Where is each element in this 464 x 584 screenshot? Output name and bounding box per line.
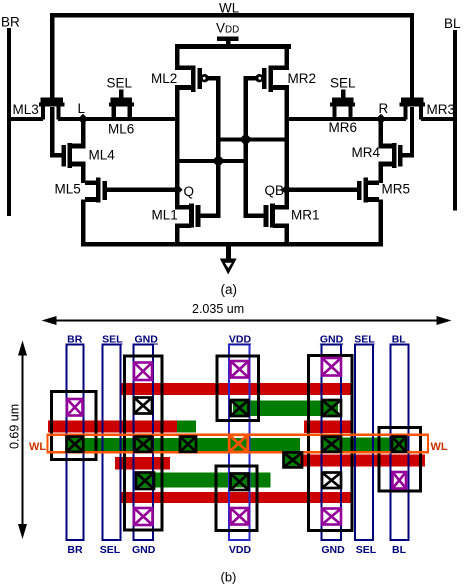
node BL bitline — [453, 30, 457, 211]
metal2 column BR — [67, 345, 84, 541]
metal1 red bar right mid — [304, 421, 351, 434]
wire R down to MR4 drain — [379, 119, 383, 148]
transistor ML4 — [62, 145, 66, 167]
svg-text:ML2: ML2 — [151, 71, 177, 86]
contact X GND left upper — [134, 398, 152, 414]
poly green WL main bar — [66, 438, 300, 452]
svg-text:BR: BR — [67, 544, 83, 556]
wire WL continuation to ML4 gate — [50, 107, 54, 158]
transistor ML2 — [175, 47, 179, 67]
wire ML4 source to ML5 drain — [81, 164, 85, 184]
transistor MR4 — [398, 145, 402, 167]
transistor ML6 — [111, 98, 132, 103]
active green bar lower — [136, 473, 271, 488]
contact X BR WL — [67, 437, 84, 452]
contact X GND left lower — [136, 473, 154, 490]
metal2 column SEL left — [103, 345, 121, 541]
nwell black box GND right — [309, 356, 353, 531]
wire node QB vertical (MR2 drain to MR1 drain) — [284, 87, 288, 207]
svg-text:R: R — [379, 101, 389, 116]
wire ML3 to L to ML6 to inverter — [58, 117, 178, 121]
wire BR to ML3 — [8, 117, 43, 121]
via X VDD bottom purple — [231, 508, 249, 525]
metal1 red bar left lower — [115, 457, 170, 470]
svg-text:GND: GND — [135, 334, 159, 346]
metal2 column SEL right — [355, 345, 373, 541]
svg-text:L: L — [78, 101, 86, 116]
metal1 red bar bottom — [120, 492, 351, 503]
wire ML5 gate to node Q — [107, 188, 179, 192]
svg-text:ML1: ML1 — [152, 208, 178, 223]
svg-text:(a): (a) — [221, 282, 238, 297]
node junction dot on B — [239, 133, 252, 146]
wire node Q vertical (ML2 drain to ML1 drain) — [175, 87, 179, 207]
transistor MR5 — [363, 178, 368, 203]
svg-text:MR5: MR5 — [382, 182, 411, 197]
node L junction dot — [78, 114, 88, 124]
svg-text:SEL: SEL — [356, 544, 377, 556]
svg-text:0.69 um: 0.69 um — [8, 404, 22, 449]
svg-text:SEL: SEL — [100, 544, 121, 556]
wire WL right drop — [410, 13, 414, 98]
node QB junction dot — [281, 185, 291, 195]
via X GND right top purple — [322, 358, 341, 376]
node BR bitline — [7, 28, 11, 216]
svg-text:BL: BL — [444, 16, 461, 31]
wire MR4 source to MR5 drain — [379, 164, 383, 184]
svg-text:MR6: MR6 — [329, 120, 358, 135]
svg-text:ML6: ML6 — [108, 122, 134, 137]
wire lower cross-couple — [175, 159, 248, 163]
active green bar upper — [233, 401, 338, 417]
svg-text:WL: WL — [29, 441, 46, 453]
wire MR2 gate line B — [243, 76, 248, 218]
transistor MR6 — [332, 98, 353, 103]
wire MR5 source to ground rail — [379, 200, 383, 245]
svg-text:ML4: ML4 — [89, 148, 116, 163]
contact X GND right lower — [322, 473, 341, 489]
nwell black box VDD bottom — [216, 466, 257, 531]
svg-text:BL: BL — [392, 334, 407, 346]
dimension arrow vertical 0.69um — [22, 352, 24, 528]
metal2 column BL — [391, 345, 409, 541]
contact X GND left WL — [135, 437, 153, 452]
layout labels bottom row — [67, 544, 406, 556]
via X GND left top purple — [134, 363, 152, 381]
svg-text:SEL: SEL — [107, 76, 133, 91]
via X WL VDD orange — [229, 435, 248, 452]
svg-text:VDD: VDD — [229, 544, 252, 556]
contact X mid offset — [284, 452, 303, 467]
poly green pad mid — [177, 421, 196, 433]
transistor MR2 — [284, 47, 288, 67]
svg-text:BR: BR — [67, 334, 83, 346]
svg-text:SEL: SEL — [330, 76, 356, 91]
wire ground rail — [81, 242, 383, 246]
wire WL top rail — [50, 13, 414, 17]
metal2 column GND left — [134, 345, 154, 541]
metal1 red bar right lower — [284, 452, 300, 467]
svg-text:2.035 um: 2.035 um — [192, 302, 244, 316]
svg-text:ML3: ML3 — [13, 102, 39, 117]
transistor MR3 — [401, 98, 424, 103]
node Q junction dot — [172, 185, 182, 195]
svg-text:WL: WL — [219, 1, 240, 16]
wire inverter to MR6 to R to MR3 — [286, 117, 406, 121]
nwell black box BL — [379, 428, 421, 492]
wire VDD rail — [175, 44, 291, 49]
svg-text:BL: BL — [392, 544, 407, 556]
contact X GND right WL — [322, 437, 341, 452]
svg-text:(b): (b) — [221, 570, 237, 584]
ground symbol — [226, 246, 231, 260]
wire ML5 source to ground rail — [81, 200, 85, 245]
metal1 red bar top — [120, 383, 351, 395]
nwell black box BR — [52, 392, 97, 460]
contact X BL WL — [392, 437, 406, 452]
svg-text:WL: WL — [431, 441, 448, 453]
wire WL continuation to MR4 gate — [410, 107, 414, 158]
node R junction dot — [376, 114, 386, 124]
wire QB to MR5 gate — [287, 188, 358, 192]
svg-text:GND: GND — [320, 334, 344, 346]
svg-text:GND: GND — [132, 544, 156, 556]
poly green WL right bar — [322, 438, 407, 452]
transistor ML5 — [96, 178, 101, 203]
metal1 red bar left mid — [48, 421, 177, 433]
svg-text:SEL: SEL — [354, 334, 375, 346]
nwell black box GND left — [125, 356, 163, 530]
transistor ML3 — [41, 98, 64, 103]
transistor MR1 — [273, 205, 289, 210]
WL orange rail outline — [48, 435, 429, 452]
transistor ML1 — [175, 205, 191, 210]
svg-text:Q: Q — [184, 184, 195, 199]
metal2 column GND right — [322, 345, 342, 541]
svg-text:MR4: MR4 — [352, 145, 381, 160]
svg-text:GND: GND — [321, 544, 345, 556]
svg-text:QB: QB — [265, 183, 285, 198]
svg-text:MR1: MR1 — [291, 208, 320, 223]
power VDD symbol — [217, 37, 238, 41]
dimension arrow horizontal 2.035um — [53, 320, 446, 322]
contact X poly pad WL — [180, 437, 196, 452]
via X GND right bottom purple — [322, 509, 341, 525]
via X GND left bottom purple — [134, 508, 153, 525]
svg-text:SEL: SEL — [102, 334, 123, 346]
svg-text:ML5: ML5 — [55, 182, 81, 197]
wire L down to ML4 drain — [81, 119, 85, 148]
wire upper cross-couple — [216, 137, 289, 141]
wire MR3 to BL — [421, 117, 456, 121]
contact X GND right upper — [322, 400, 341, 416]
nwell black box VDD top — [217, 356, 259, 421]
svg-text:MR2: MR2 — [288, 71, 317, 86]
svg-text:VDD: VDD — [229, 334, 252, 346]
node junction dot on A — [212, 154, 225, 167]
via X VDD top purple — [231, 361, 249, 378]
wire WL left drop — [50, 13, 54, 98]
via X BL lower purple — [393, 472, 407, 489]
contact X VDD upper — [231, 400, 249, 416]
metal2 column VDD — [229, 345, 250, 541]
contact X VDD lower — [231, 474, 249, 491]
svg-text:MR3: MR3 — [427, 102, 456, 117]
via X BR purple — [67, 399, 83, 416]
wire ML2 gate line A — [216, 76, 221, 218]
layout labels top row — [67, 334, 406, 346]
svg-text:BR: BR — [1, 15, 20, 30]
